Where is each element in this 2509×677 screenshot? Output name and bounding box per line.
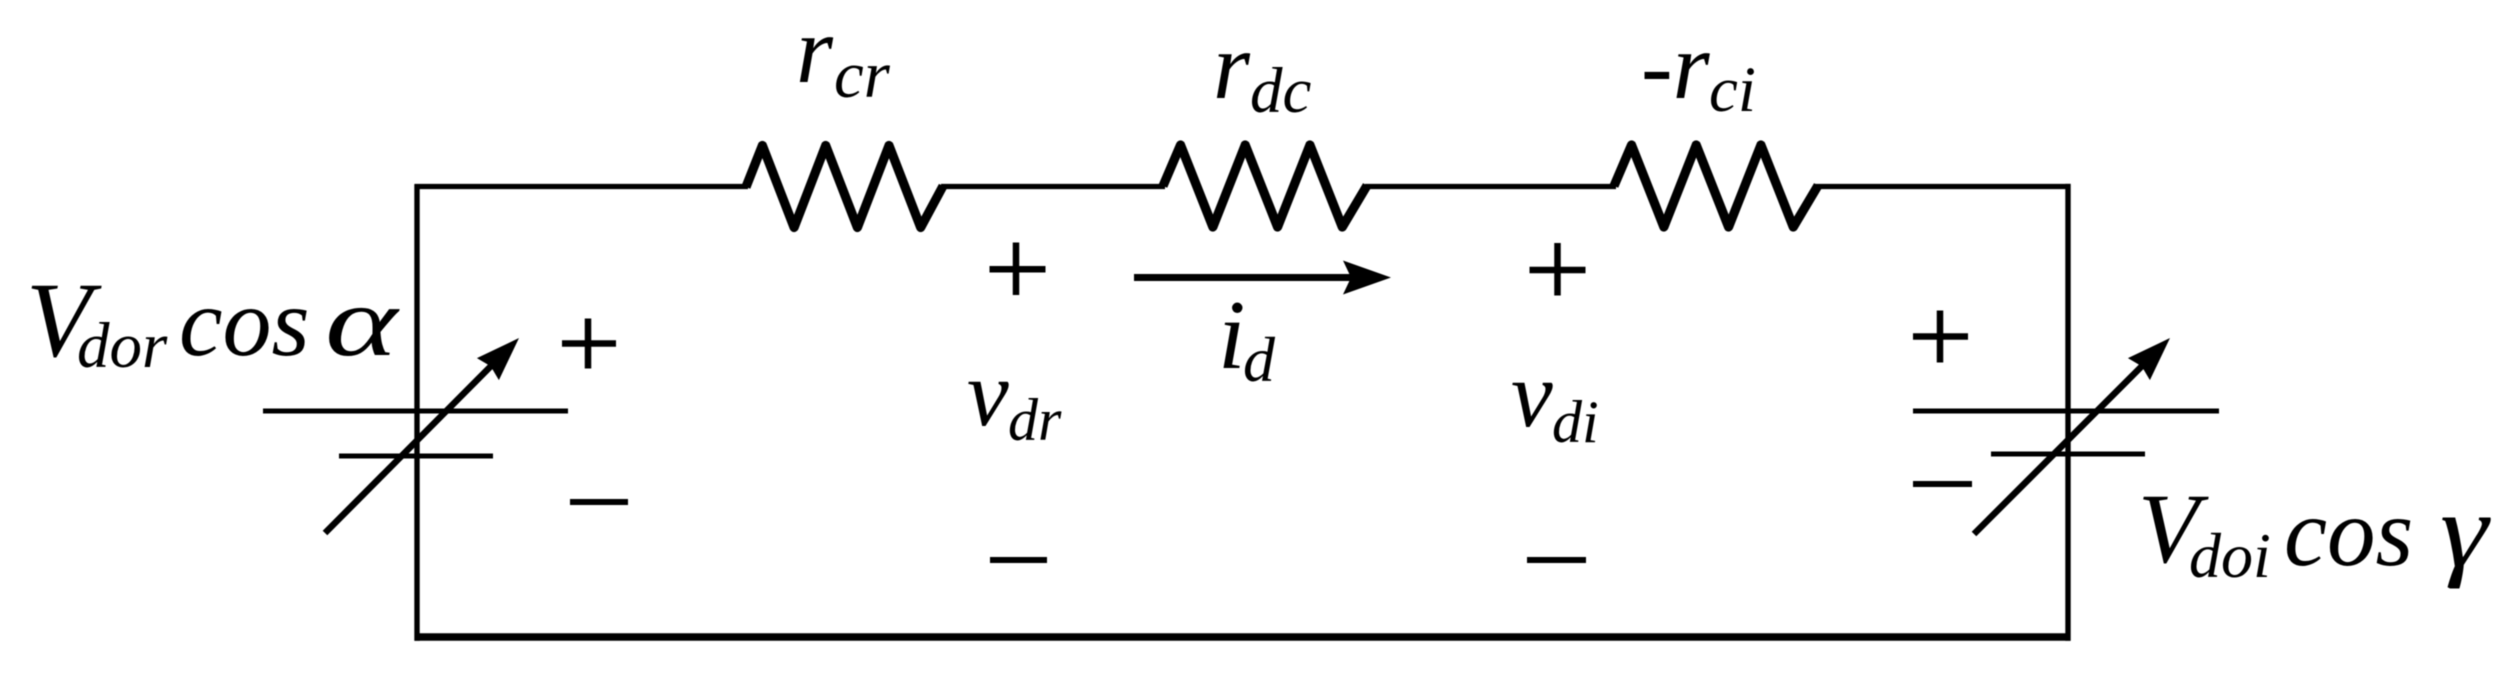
source V_dor cos(alpha): bottom plate bbox=[339, 454, 493, 459]
svg-text:γ: γ bbox=[2440, 471, 2491, 589]
svg-text:-r: -r bbox=[1641, 13, 1711, 119]
wire: top-left segment from left vertical to resistor r_cr bbox=[415, 184, 749, 189]
svg-text:di: di bbox=[1552, 389, 1599, 455]
source V_doi cos(gamma): bottom plate bbox=[1991, 452, 2145, 457]
label V_dor cos alpha bbox=[26, 262, 401, 382]
svg-text:v: v bbox=[1511, 343, 1553, 447]
label r_cr bbox=[796, 0, 891, 112]
label v_di bbox=[1511, 343, 1599, 455]
wire: segment between r_dc and -r_ci bbox=[1365, 184, 1616, 189]
wire: segment from -r_ci to right vertical bbox=[1815, 184, 2071, 189]
current arrow i_d shaft bbox=[1134, 274, 1352, 281]
minus sign of v_dr bbox=[990, 557, 1047, 563]
minus sign of v_di bbox=[1527, 557, 1586, 563]
label V_doi cos gamma bbox=[2138, 471, 2491, 591]
label r_dc bbox=[1213, 13, 1312, 127]
svg-text:dor: dor bbox=[77, 310, 168, 382]
svg-text:i: i bbox=[1218, 281, 1246, 390]
minus sign of left source bbox=[570, 499, 628, 505]
wire: segment between r_cr and r_dc bbox=[941, 184, 1165, 189]
plus sign of v_di bbox=[1530, 243, 1586, 296]
svg-text:doi: doi bbox=[2189, 520, 2271, 591]
label v_dr bbox=[967, 342, 1062, 453]
svg-text:v: v bbox=[967, 342, 1009, 446]
wire: left vertical bbox=[414, 184, 419, 640]
resistor -r_ci bbox=[1614, 145, 1818, 227]
source V_doi cos(gamma): top plate bbox=[1913, 409, 2219, 414]
source V_dor cos(alpha): variability arrow head bbox=[477, 338, 519, 380]
source V_doi cos(gamma): variability arrow head bbox=[2128, 338, 2170, 380]
svg-text:d: d bbox=[1243, 324, 1276, 395]
source V_doi cos(gamma): variability arrow shaft bbox=[1974, 363, 2145, 534]
label -r_ci bbox=[1641, 13, 1756, 126]
svg-text:cos: cos bbox=[2284, 479, 2413, 586]
plus sign of left source bbox=[562, 319, 616, 369]
wire: right vertical bbox=[2065, 184, 2070, 641]
svg-text:ci: ci bbox=[1709, 54, 1756, 126]
svg-text:cos: cos bbox=[179, 269, 310, 377]
svg-text:cr: cr bbox=[834, 38, 891, 112]
source V_dor cos(alpha): variability arrow shaft bbox=[325, 363, 494, 533]
current arrow i_d head bbox=[1343, 261, 1391, 295]
resistor r_dc bbox=[1163, 145, 1367, 227]
svg-text:α: α bbox=[325, 267, 401, 377]
source V_dor cos(alpha): top plate bbox=[263, 409, 568, 414]
plus sign of v_dr bbox=[990, 243, 1046, 296]
resistor r_cr bbox=[746, 146, 943, 228]
svg-text:r: r bbox=[796, 0, 834, 103]
svg-text:r: r bbox=[1213, 13, 1251, 119]
label i_d bbox=[1218, 281, 1276, 395]
svg-text:dr: dr bbox=[1008, 387, 1062, 453]
minus sign of right source bbox=[1913, 481, 1972, 487]
wire: bottom horizontal bbox=[415, 633, 2071, 641]
plus sign of right source bbox=[1913, 311, 1968, 363]
svg-text:dc: dc bbox=[1250, 55, 1312, 127]
